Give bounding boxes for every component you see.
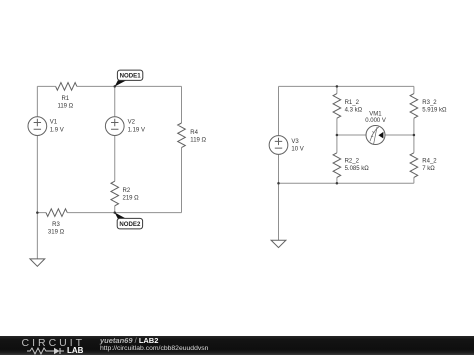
wire R3_2 branch <box>413 86 415 135</box>
wire top left circuit <box>37 85 181 87</box>
junction node mid R1_2 <box>336 134 339 137</box>
resistor R1_2 <box>333 94 341 119</box>
label V3 <box>291 139 303 153</box>
svg-text:R4: R4 <box>190 130 198 136</box>
svg-text:7 kΩ: 7 kΩ <box>422 166 435 172</box>
wire bottom left circuit <box>37 212 181 214</box>
svg-text:4.3 kΩ: 4.3 kΩ <box>345 108 363 114</box>
voltmeter VM1 <box>366 126 385 145</box>
resistor R2_2 <box>333 153 341 178</box>
junction node bottom V3 <box>277 182 280 185</box>
svg-text:1.9 V: 1.9 V <box>50 128 64 134</box>
svg-text:1.19 V: 1.19 V <box>128 128 145 134</box>
label V1 <box>50 120 64 134</box>
svg-text:R1: R1 <box>61 96 69 102</box>
resistor R1 <box>56 83 77 91</box>
wire bottom right circuit <box>279 182 414 184</box>
wire top right circuit <box>279 85 414 87</box>
label R3 <box>48 222 65 235</box>
wire R4 branch <box>181 86 183 212</box>
wire V2 branch <box>114 86 116 212</box>
wire R4_2 branch <box>413 135 415 183</box>
wire middle row VM1 <box>337 134 414 136</box>
junction node top V2 NODE1 <box>114 85 117 88</box>
label R2_2 <box>345 158 370 172</box>
junction node top R1_2 <box>336 85 339 88</box>
svg-text:219 Ω: 219 Ω <box>123 196 140 202</box>
footer bar <box>0 336 474 355</box>
resistor R2 <box>111 181 119 206</box>
svg-text:V2: V2 <box>128 120 136 126</box>
svg-text:V1: V1 <box>50 120 58 126</box>
label R2 <box>123 188 140 202</box>
CircuitLab logo <box>22 337 86 349</box>
label R3_2 <box>422 100 447 114</box>
svg-text:R2: R2 <box>123 188 131 194</box>
voltmeter VM1 arrow <box>378 132 383 139</box>
svg-text:R3_2: R3_2 <box>422 100 437 106</box>
svg-text:NODE1: NODE1 <box>120 73 142 80</box>
label R1_2 <box>345 100 363 114</box>
label V2 <box>128 120 145 134</box>
svg-text:119 Ω: 119 Ω <box>57 103 73 109</box>
node flag NODE2 <box>115 213 143 229</box>
resistor R4 <box>178 123 186 148</box>
svg-text:10 V: 10 V <box>291 147 303 153</box>
footer url <box>100 345 208 352</box>
resistor R3_2 <box>410 94 418 119</box>
svg-text:R3: R3 <box>52 222 60 228</box>
label R4 <box>190 130 206 144</box>
svg-text:0.000 V: 0.000 V <box>365 118 386 124</box>
svg-text:R2_2: R2_2 <box>345 158 360 164</box>
junction node bottom R2 NODE2 <box>114 211 117 214</box>
voltage source V3 <box>269 136 288 155</box>
svg-text:NODE2: NODE2 <box>119 221 141 228</box>
junction node bottom R2_2 <box>336 182 339 185</box>
svg-text:VM1: VM1 <box>369 112 382 118</box>
footer title <box>100 336 158 345</box>
junction node mid R3_2 <box>413 134 416 137</box>
wire V3 branch <box>278 86 280 240</box>
ground left <box>30 259 45 266</box>
resistor R3 <box>46 209 67 217</box>
resistor R4_2 <box>410 153 418 178</box>
label VM1 <box>365 112 386 124</box>
svg-text:V3: V3 <box>291 139 299 145</box>
svg-text:119 Ω: 119 Ω <box>190 138 206 144</box>
wire R1_2 branch <box>336 86 338 135</box>
wire R2_2 branch <box>336 135 338 183</box>
svg-text:319 Ω: 319 Ω <box>48 229 65 235</box>
ground right <box>271 240 286 247</box>
node flag NODE1 <box>115 70 143 86</box>
svg-text:5.085 kΩ: 5.085 kΩ <box>345 166 370 172</box>
svg-text:R1_2: R1_2 <box>345 100 360 106</box>
svg-text:R4_2: R4_2 <box>422 158 437 164</box>
wire left vertical V1 branch <box>36 86 38 259</box>
junction node bottom left <box>36 211 39 214</box>
label R4_2 <box>422 158 437 172</box>
label R1 <box>57 96 73 110</box>
voltage source V1 <box>28 117 47 136</box>
voltage source V2 <box>105 117 124 136</box>
svg-text:5.919 kΩ: 5.919 kΩ <box>422 108 447 114</box>
